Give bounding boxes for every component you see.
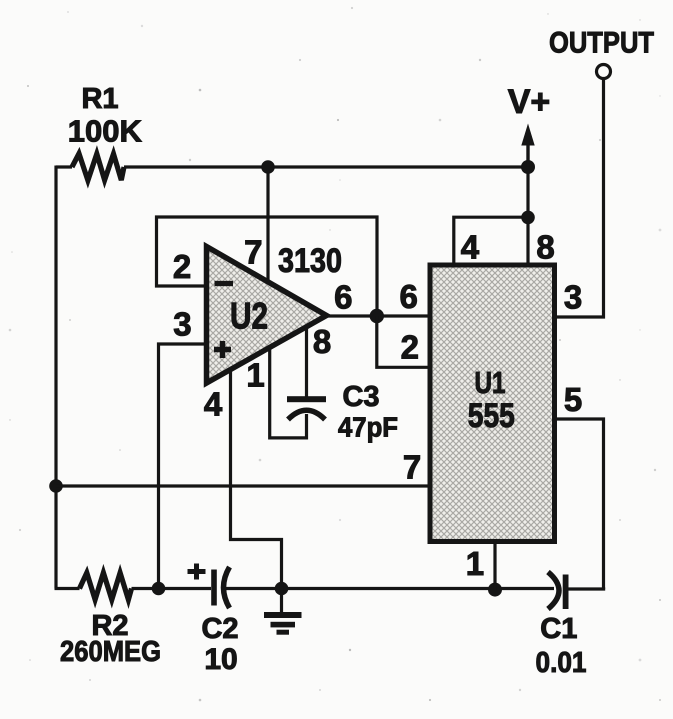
node U2 output junction xyxy=(370,309,384,323)
capacitor C3 xyxy=(287,396,326,419)
ground xyxy=(264,589,302,635)
wire top V+ rail xyxy=(56,165,528,168)
svg-text:OUTPUT: OUTPUT xyxy=(549,26,654,59)
svg-text:R1: R1 xyxy=(81,83,118,115)
resistor R1 xyxy=(72,154,124,181)
power V+ arrow xyxy=(521,124,534,168)
node R1 rail / U2 pin7 junction xyxy=(261,160,275,174)
wire U1 pin8 / V+ drop xyxy=(526,167,529,265)
svg-text:260MEG: 260MEG xyxy=(60,636,161,668)
resistor R2 xyxy=(80,573,132,600)
svg-text:3130: 3130 xyxy=(278,242,342,280)
node left rail / U1 pin7 junction xyxy=(49,479,63,493)
svg-text:V+: V+ xyxy=(508,83,551,121)
svg-text:555: 555 xyxy=(468,397,515,435)
wire U2 pin3 vertical xyxy=(159,344,208,589)
node U1 pin1 junction xyxy=(488,583,502,597)
wire U1 pin4 xyxy=(454,217,528,265)
wire U1 pin3 to output terminal xyxy=(554,79,604,317)
svg-text:1: 1 xyxy=(246,357,264,394)
svg-text:3: 3 xyxy=(173,306,191,343)
svg-text:5: 5 xyxy=(564,381,582,418)
wire U1 pin1 stub xyxy=(493,541,496,590)
svg-text:U2: U2 xyxy=(230,296,268,337)
capacitor C2 xyxy=(188,564,230,609)
svg-text:7: 7 xyxy=(244,234,262,271)
terminal OUTPUT xyxy=(597,65,611,79)
wire bottom rail xyxy=(55,587,606,591)
svg-text:U1: U1 xyxy=(475,365,506,400)
node V+ / pin4 pin8 junction xyxy=(521,211,535,225)
wire U2 output to U1 pin6 xyxy=(327,314,431,317)
svg-text:4: 4 xyxy=(461,229,480,266)
wire U2 pin4 to ground xyxy=(231,370,282,589)
svg-text:3: 3 xyxy=(564,279,582,316)
wire U2 pin2 feedback loop xyxy=(157,217,378,316)
svg-text:4: 4 xyxy=(204,386,223,423)
svg-text:47pF: 47pF xyxy=(338,412,398,443)
svg-text:8: 8 xyxy=(536,229,554,266)
node ground junction xyxy=(275,582,289,596)
op-amp U2 xyxy=(207,247,327,384)
svg-text:8: 8 xyxy=(313,323,331,360)
svg-text:C3: C3 xyxy=(342,381,379,413)
wire U1 pin5 xyxy=(554,419,604,589)
svg-text:1: 1 xyxy=(466,545,484,582)
svg-text:C1: C1 xyxy=(540,613,577,645)
svg-text:C2: C2 xyxy=(201,613,238,645)
wire U2 pin1 to C3 xyxy=(270,348,307,438)
svg-text:100K: 100K xyxy=(68,114,143,149)
wire U2 pin8 vertical xyxy=(305,327,308,399)
node V+ rail junction xyxy=(521,160,535,174)
wire left rail xyxy=(54,166,57,589)
svg-text:7: 7 xyxy=(403,449,421,486)
capacitor C1 xyxy=(548,572,569,609)
svg-text:6: 6 xyxy=(334,279,352,316)
wire U1 pin2 branch xyxy=(377,316,430,367)
svg-text:6: 6 xyxy=(400,278,418,315)
svg-text:0.01: 0.01 xyxy=(536,647,587,679)
node R2 / C2 junction xyxy=(152,582,166,596)
svg-text:2: 2 xyxy=(173,248,191,285)
svg-text:2: 2 xyxy=(401,329,419,366)
svg-text:10: 10 xyxy=(204,643,237,676)
wire U2 pin7 vertical xyxy=(266,167,269,280)
wire U1 pin7 xyxy=(56,484,430,487)
IC U1 555 xyxy=(430,265,555,542)
